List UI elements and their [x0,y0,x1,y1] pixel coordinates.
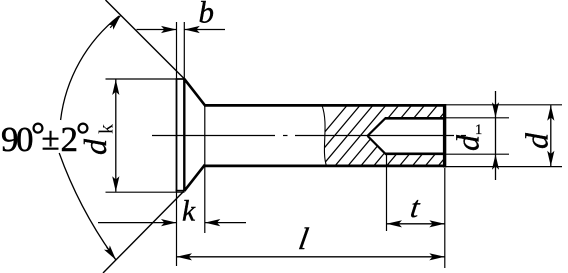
dimension dk: extension line bottom [106,191,185,193]
dimension dk: extension line top [106,78,185,80]
dimension b: extension line left [176,22,178,79]
left extension line (head face, for b/k/l) [176,191,178,266]
dimension k: left dim line with arrow (outside) [98,219,177,226]
head top edge connector [176,78,186,80]
head flat face right line [183,79,185,192]
hole top edge [385,117,445,120]
dimension d: extension line top [445,104,562,106]
dimension d: dim line with arrows inside [547,105,554,166]
dimension d1: extension line bottom [445,153,509,155]
shank top edge [204,104,446,107]
arc arrowhead bottom [104,245,119,262]
shank end face [443,104,446,168]
dimension dk: dim line with arrows [112,80,119,192]
hole bottom edge [385,153,445,156]
dimension k: right extension line [204,106,206,234]
head bottom edge connector [176,190,186,192]
svg-text:k: k [182,196,196,228]
arc arrowhead top [107,13,123,30]
dimension l: dim line with arrows inside [177,253,445,260]
dimension b: dim line left with arrow [137,26,177,33]
break line (wavy) of broken-out section [322,105,327,166]
construction line lower (45 deg) [103,191,185,273]
head cone bottom edge [184,165,205,191]
svg-text:±: ± [42,122,60,158]
dimension t: left extension line [386,155,388,231]
svg-text:d: d [519,132,555,149]
dimension d1: dim line with arrows outside [492,91,499,180]
center line (dash-dot axis) [152,135,466,137]
svg-text:1: 1 [475,122,482,138]
dimension k: right dim line with arrow (outside) [205,219,246,226]
hole cone upper edge [368,118,387,136]
dimension d: extension line bottom [445,166,562,168]
shank bottom edge [204,164,446,167]
dimension b: dim line right with arrow [184,26,225,33]
hatching of broken-out section [296,105,502,166]
svg-text:b: b [199,0,215,30]
angle arc upper segment [61,16,119,120]
head flat face left line (thick part) [176,79,178,192]
head cone top edge [184,79,205,105]
dimension d1: extension line top [445,117,509,119]
dimension b: extension line right [183,22,185,79]
svg-text:90°: 90° [1,115,44,159]
right extension line (shank end, for t/l) [444,168,446,268]
hole cone lower edge [368,136,387,155]
construction line upper (45 deg) [106,0,185,79]
dimension t: dim line with arrows inside [387,220,445,227]
angle arc lower segment [59,153,116,260]
